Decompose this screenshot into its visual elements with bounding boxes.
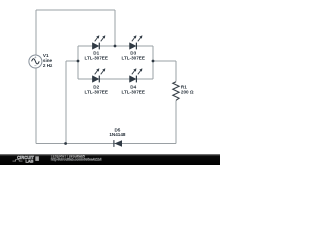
svg-text:LAB: LAB — [26, 158, 34, 163]
svg-text:LTL-307EE: LTL-307EE — [84, 55, 107, 60]
svg-text:1N4148: 1N4148 — [109, 132, 126, 137]
svg-text:200 Ω: 200 Ω — [181, 90, 194, 95]
svg-text:2 Hz: 2 Hz — [43, 63, 53, 68]
svg-text:LTL-307EE: LTL-307EE — [84, 90, 107, 95]
svg-text:http˸//circuitlab.com/c6e5ea4z: http˸//circuitlab.com/c6e5ea4z1b/l — [51, 157, 102, 161]
svg-text:LTL-307EE: LTL-307EE — [121, 90, 144, 95]
svg-text:LTL-307EE: LTL-307EE — [121, 55, 144, 60]
